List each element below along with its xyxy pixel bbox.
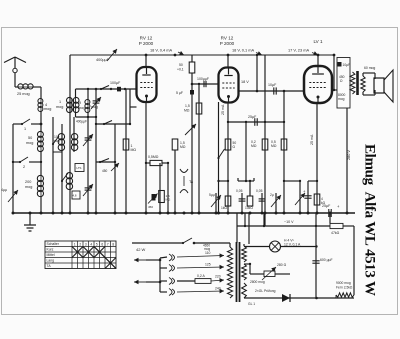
svg-text:125: 125 bbox=[205, 263, 211, 267]
svg-text:60 mog: 60 mog bbox=[364, 66, 375, 70]
label 2800mog bbox=[250, 280, 265, 284]
svg-text:mog: mog bbox=[338, 97, 345, 101]
node y226 316 bbox=[315, 225, 317, 227]
svg-text:2: 2 bbox=[23, 165, 25, 169]
svg-text:LV 1: LV 1 bbox=[313, 39, 323, 44]
svg-text:RV 12: RV 12 bbox=[140, 36, 153, 41]
svg-text:0,2 A: 0,2 A bbox=[197, 274, 205, 278]
svg-text:2µ: 2µ bbox=[270, 193, 274, 197]
transformer T1 core bbox=[72, 99, 74, 111]
svg-text:7: 7 bbox=[107, 242, 109, 246]
box LTS bbox=[75, 164, 84, 172]
coil 4mog bbox=[38, 99, 51, 112]
link y181 a bbox=[217, 180, 229, 182]
svg-text:100µµF: 100µµF bbox=[197, 77, 209, 81]
svg-text:25 mog: 25 mog bbox=[17, 92, 30, 96]
svg-text:5 µF: 5 µF bbox=[176, 91, 183, 95]
tap 240 bbox=[177, 287, 224, 294]
svg-text:MΩ: MΩ bbox=[271, 144, 277, 148]
resistor 0.5M right bbox=[271, 139, 287, 150]
cap 100uF bbox=[110, 81, 121, 91]
wire transformer bottom row bbox=[244, 297, 354, 300]
pilot lamp bbox=[270, 241, 318, 252]
node rail-334 bbox=[333, 54, 336, 57]
coil x70 lower bbox=[66, 172, 72, 189]
svg-text:25 mA: 25 mA bbox=[221, 104, 225, 115]
svg-text:MΩ: MΩ bbox=[166, 198, 171, 202]
fuse 0.2A bbox=[177, 274, 224, 283]
wire x70 column bbox=[69, 55, 71, 213]
output transformer core bbox=[356, 71, 359, 95]
selector jaw 2 bbox=[160, 265, 175, 272]
switch on y124 bbox=[103, 121, 112, 126]
resistor 0.2M bbox=[251, 139, 268, 150]
resistor bottom x161 bbox=[159, 191, 171, 203]
svg-text:Lang: Lang bbox=[47, 259, 55, 263]
wire x316 column low bbox=[315, 213, 317, 298]
resistor bottom 250 bbox=[245, 180, 253, 210]
wire x175 column bbox=[174, 150, 176, 213]
svg-text:9000 mog: 9000 mog bbox=[336, 281, 351, 285]
wire x62 column bbox=[61, 124, 63, 213]
switch 1 bbox=[15, 119, 41, 131]
wire U3 anode out bbox=[332, 89, 337, 91]
selector riser bbox=[159, 258, 161, 292]
svg-text:12 V, 0,1 A: 12 V, 0,1 A bbox=[284, 243, 301, 247]
varcap on x96 bbox=[91, 89, 101, 213]
svg-text:1,5: 1,5 bbox=[185, 104, 190, 108]
resistor 1.5M x199 bbox=[184, 103, 202, 114]
wire x168 column bbox=[167, 163, 169, 213]
svg-text:Fern 2,5kΩ: Fern 2,5kΩ bbox=[336, 286, 353, 290]
label 400uuF left bbox=[76, 120, 87, 124]
wire x88 to bus bbox=[87, 117, 89, 213]
label 25mA U3 bbox=[310, 134, 314, 145]
label RV12 P2000 (U2) bbox=[220, 36, 235, 47]
svg-text:200: 200 bbox=[25, 180, 31, 184]
mains lead 2 bbox=[134, 280, 161, 285]
svg-text:400µµF: 400µµF bbox=[76, 120, 87, 124]
line y124 left bbox=[95, 123, 131, 125]
svg-text:25µF: 25µF bbox=[248, 115, 257, 119]
svg-text:mog: mog bbox=[44, 107, 51, 111]
transformer TR core bbox=[237, 242, 240, 302]
svg-text:MΩ: MΩ bbox=[184, 109, 190, 113]
switch table bbox=[45, 241, 116, 269]
label lamp bbox=[284, 239, 301, 247]
svg-text:220: 220 bbox=[215, 275, 221, 279]
label diode bbox=[255, 289, 276, 293]
svg-text:18 V, 0,4 mA: 18 V, 0,4 mA bbox=[150, 48, 173, 53]
svg-text:P 2000: P 2000 bbox=[220, 41, 235, 46]
wire top HT rail bbox=[70, 54, 334, 56]
label 42W bbox=[136, 247, 146, 252]
node y226 264 bbox=[263, 213, 265, 227]
svg-text:1: 1 bbox=[24, 127, 26, 131]
svg-text:2: 2 bbox=[79, 242, 81, 246]
switch 2 bbox=[12, 157, 42, 169]
selector jaw 4 bbox=[160, 289, 175, 296]
svg-text:mog: mog bbox=[204, 247, 210, 251]
svg-text:4: 4 bbox=[90, 242, 92, 246]
wire left column x13 bbox=[13, 124, 15, 213]
svg-text:47kΩ: 47kΩ bbox=[331, 231, 340, 235]
label 18V 0.4mA with arrow bbox=[150, 48, 184, 56]
cap 600uuF bbox=[312, 258, 332, 263]
wire bottom link y117 bbox=[76, 116, 98, 118]
supply line y226 bbox=[237, 220, 330, 226]
svg-text:Elmug Alfa WL 4513 W: Elmug Alfa WL 4513 W bbox=[362, 144, 378, 296]
output transformer loop bbox=[337, 58, 350, 109]
wire x354 down bbox=[353, 226, 355, 295]
wire x41 mid bbox=[40, 151, 42, 176]
wire x265 column bbox=[264, 55, 266, 226]
svg-text:mog: mog bbox=[53, 139, 60, 143]
svg-text:10µF: 10µF bbox=[343, 63, 351, 67]
box 4.8mog bbox=[72, 191, 80, 199]
transformer T1 primary 1mog bbox=[56, 97, 72, 112]
wire x126 column bbox=[125, 89, 127, 213]
anode line y91 bbox=[239, 90, 305, 93]
svg-text:25µF: 25µF bbox=[322, 204, 331, 208]
wire x115 column bbox=[114, 124, 116, 213]
rectifier diode bbox=[282, 294, 290, 302]
selector jaw 3 bbox=[160, 278, 175, 285]
wire x74 column bbox=[73, 117, 75, 152]
coil 50mog bbox=[26, 124, 43, 152]
wire sec top to lamp bbox=[244, 246, 269, 248]
wire transformer to bus bbox=[346, 108, 348, 213]
switch on x218 bbox=[217, 102, 224, 213]
svg-text:mog: mog bbox=[56, 105, 63, 109]
svg-text:RV 12: RV 12 bbox=[221, 36, 234, 41]
wire top link y89 bbox=[76, 88, 97, 90]
grid line y89 bbox=[95, 88, 137, 91]
bus junction dots bbox=[12, 212, 349, 215]
svg-text:1: 1 bbox=[74, 242, 76, 246]
node y226 245 bbox=[244, 213, 246, 227]
coil 200mog bbox=[25, 175, 44, 196]
resistor cathode U2 bbox=[225, 139, 236, 150]
svg-text:8: 8 bbox=[112, 242, 114, 246]
svg-text:5: 5 bbox=[96, 242, 98, 246]
svg-text:0,05: 0,05 bbox=[236, 189, 243, 193]
label 450ohm bbox=[339, 75, 345, 83]
wire U1 anode to rail bbox=[145, 55, 147, 67]
svg-text:100µF: 100µF bbox=[110, 81, 121, 85]
wire x300 column bbox=[299, 181, 301, 213]
transformer T1 secondary bbox=[73, 89, 85, 117]
svg-text:50: 50 bbox=[28, 136, 32, 140]
transformer TR secondary top bbox=[242, 244, 247, 262]
resistor 1.5MOhm bbox=[172, 139, 186, 150]
tuning cap gang1 bbox=[83, 134, 93, 146]
svg-text:MΩ: MΩ bbox=[180, 145, 186, 149]
label 25mA U2 bbox=[221, 104, 225, 115]
arrow grid U1 bbox=[185, 124, 196, 135]
switch row y162 mid bbox=[96, 159, 116, 164]
wire x284 column bbox=[283, 91, 285, 213]
wire x247 column bbox=[245, 121, 247, 181]
svg-text:2×GL Prüfung: 2×GL Prüfung bbox=[255, 289, 276, 293]
wire x192 column bbox=[191, 55, 193, 213]
coil 10mog bbox=[53, 133, 65, 150]
svg-text:18 V, 0,1 mA: 18 V, 0,1 mA bbox=[232, 48, 255, 53]
svg-text:400µµF: 400µµF bbox=[96, 58, 110, 62]
wire x160 column bbox=[159, 163, 161, 213]
svg-text:450: 450 bbox=[148, 205, 153, 209]
switch on x53 bbox=[52, 136, 59, 145]
resistor 47k bbox=[330, 213, 354, 235]
svg-text:mog: mog bbox=[25, 185, 32, 189]
mains lead 1 bbox=[134, 258, 161, 263]
mains switch row bbox=[132, 238, 230, 244]
cap bottom 262 bbox=[256, 189, 265, 213]
cap bottom 242 bbox=[236, 189, 245, 213]
cap 10uF bbox=[268, 83, 277, 95]
resistor 4k x317 bbox=[314, 103, 325, 213]
cap 25uF on bus bbox=[322, 204, 340, 217]
svg-text:4,8: 4,8 bbox=[73, 194, 77, 198]
transformer TR secondary mid bbox=[242, 264, 247, 280]
resistor 1MOhm bbox=[123, 139, 136, 152]
resistor bottom 228 bbox=[221, 196, 231, 210]
svg-text:4µµ: 4µµ bbox=[1, 188, 7, 192]
node rail-257 bbox=[256, 54, 258, 56]
tap 110 bbox=[177, 251, 224, 258]
svg-text:600 µµF: 600 µµF bbox=[320, 258, 333, 262]
label 18V at U2 bbox=[241, 80, 249, 84]
tuning cap gang2 bbox=[83, 184, 93, 196]
svg-text:110: 110 bbox=[205, 251, 211, 255]
trimmer C 400uuF on rail bbox=[96, 49, 117, 62]
tap 125 bbox=[177, 263, 224, 270]
antenna bbox=[4, 57, 26, 87]
ground bus bbox=[12, 212, 355, 214]
wire U2 cathode down bbox=[227, 103, 229, 214]
wire x237 down bbox=[236, 213, 238, 243]
wire sec mid tap bbox=[244, 263, 264, 274]
svg-text:Schalter: Schalter bbox=[47, 242, 60, 246]
label 4650mog bbox=[203, 244, 210, 252]
cap 25uF+ at 308 bbox=[303, 181, 312, 213]
wire x130 link bbox=[130, 89, 137, 124]
svg-text:3: 3 bbox=[85, 242, 87, 246]
svg-text:18 V: 18 V bbox=[241, 80, 249, 84]
svg-text:0,5MΩ: 0,5MΩ bbox=[148, 155, 159, 159]
coil antenna 25mog bbox=[15, 84, 41, 96]
transformer TR primary bbox=[227, 243, 232, 298]
wire x199 column bbox=[198, 83, 200, 213]
svg-text:10kΩ: 10kΩ bbox=[245, 206, 253, 210]
cap 10uF x334 bbox=[338, 62, 351, 67]
wire x257 column bbox=[256, 55, 258, 91]
wire x53 column bbox=[52, 117, 54, 213]
label 2?V 23mA with arrow bbox=[288, 48, 318, 56]
node rail-U1 bbox=[145, 54, 148, 57]
wire U3 anode to rail bbox=[317, 55, 319, 66]
tube U1 RV12 P2000 bbox=[137, 67, 157, 102]
label 280V bbox=[347, 150, 351, 160]
node rail-U3 bbox=[317, 54, 320, 57]
jack Ta bbox=[180, 169, 194, 193]
svg-text:1: 1 bbox=[59, 100, 61, 104]
node x265 y122 bbox=[264, 121, 266, 123]
switch on y89 bbox=[100, 86, 109, 91]
link y181 b bbox=[283, 180, 301, 182]
wire ant to coil4 bbox=[40, 87, 42, 99]
rheostat 280ohm bbox=[262, 263, 290, 280]
svg-text:25 mA: 25 mA bbox=[310, 134, 314, 145]
speaker coil 60mog bbox=[361, 66, 376, 95]
svg-text:mog: mog bbox=[26, 141, 33, 145]
svg-text:Kurz: Kurz bbox=[47, 248, 54, 252]
cap 100uuF on y84 bbox=[197, 77, 209, 87]
wire x334 column bbox=[333, 55, 335, 91]
svg-text:2800 mog: 2800 mog bbox=[250, 280, 265, 284]
link y181 bracket bbox=[238, 178, 254, 182]
node rail-U2 bbox=[227, 54, 230, 57]
wire U1 cathode to bus bbox=[145, 102, 147, 213]
cap 5uF bbox=[176, 90, 194, 95]
svg-text:LTS: LTS bbox=[77, 166, 82, 170]
resistor 0.5MOhm bbox=[145, 155, 169, 166]
field coil 9000mog bbox=[336, 281, 354, 298]
svg-text:0,05: 0,05 bbox=[256, 189, 263, 193]
svg-text:17 V, 23 mA: 17 V, 23 mA bbox=[288, 48, 309, 53]
svg-text:+0,1: +0,1 bbox=[177, 68, 184, 72]
grid line y84 bbox=[191, 83, 219, 86]
coil on x74 bbox=[71, 133, 77, 150]
svg-text:1kΩ: 1kΩ bbox=[221, 206, 227, 210]
cap 25uF line y122 bbox=[227, 115, 285, 126]
switch on x62 bbox=[61, 173, 68, 182]
title Elmug Alfa WL 4513 W bbox=[362, 144, 378, 296]
svg-text:50: 50 bbox=[179, 63, 183, 67]
svg-text:P 2000: P 2000 bbox=[139, 41, 154, 46]
svg-text:mog: mog bbox=[78, 106, 85, 110]
link y152 bbox=[53, 151, 62, 153]
wire coil4 down bbox=[40, 111, 43, 125]
svg-text:280 V: 280 V bbox=[347, 150, 351, 160]
trimmer on x115 bbox=[102, 163, 119, 173]
label RV12 P2000 (U1) bbox=[139, 36, 154, 47]
selector jaw 1 bbox=[160, 254, 175, 261]
svg-text:450: 450 bbox=[102, 169, 108, 173]
trimmer bottom 216 bbox=[209, 193, 221, 213]
tube U3 LV1 bbox=[304, 66, 332, 103]
link y181 c bbox=[308, 180, 318, 182]
trimmer on x300 bbox=[295, 193, 305, 205]
svg-text:6: 6 bbox=[101, 242, 103, 246]
label 18V 0.1mA with arrow bbox=[232, 48, 262, 56]
svg-text:280 Ω: 280 Ω bbox=[277, 263, 287, 267]
svg-text:Mittel: Mittel bbox=[47, 253, 55, 257]
svg-text:10µF: 10µF bbox=[268, 83, 277, 87]
output transformer primary bbox=[350, 72, 355, 94]
wire U2 anode to rail bbox=[227, 55, 229, 68]
tube U2 RV12 P2000 bbox=[219, 68, 239, 103]
trimmer on x13 bbox=[1, 188, 18, 202]
trimmer bottom 276 bbox=[270, 193, 281, 213]
speaker bbox=[374, 70, 393, 102]
svg-text:~10 V: ~10 V bbox=[284, 220, 294, 224]
svg-text:MΩ: MΩ bbox=[131, 148, 137, 152]
svg-text:GL 1: GL 1 bbox=[248, 302, 255, 306]
label LV1 (U3) bbox=[313, 39, 323, 44]
svg-text:9: 9 bbox=[79, 101, 81, 105]
cap-trimmer bottom bbox=[148, 194, 158, 210]
label 8000mog bbox=[338, 93, 346, 101]
resistor 50k x192 bbox=[177, 62, 195, 73]
svg-text:MΩ: MΩ bbox=[251, 144, 257, 148]
svg-text:42 W: 42 W bbox=[136, 247, 146, 252]
wire x249 down bbox=[248, 213, 250, 244]
coil on x88 bbox=[85, 89, 98, 117]
node rail-175 bbox=[174, 54, 177, 57]
transformer TR secondary bottom bbox=[242, 283, 256, 306]
wire x41 to bus bbox=[40, 196, 42, 213]
svg-text:5µµ: 5µµ bbox=[209, 193, 215, 197]
ground symbol bbox=[24, 212, 36, 232]
svg-text:240: 240 bbox=[215, 287, 221, 291]
